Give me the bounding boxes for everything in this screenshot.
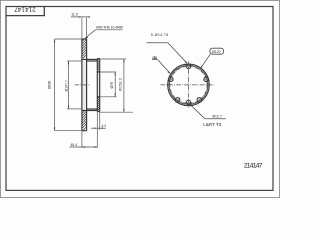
axis centerline left view: [75, 84, 91, 86]
4.2 arrows: [94, 128, 97, 129]
ring top edge: [82, 38, 87, 40]
flange hatch upper: [97, 59, 99, 72]
11.9 arrows: [79, 16, 82, 17]
hat bottom wall outer: [82, 110, 97, 112]
svg-text:Ø79: Ø79: [110, 82, 114, 89]
friction ring right edge: [86, 39, 88, 131]
svg-text:Ø120: Ø120: [212, 50, 221, 54]
ring hatch lower: [82, 111, 87, 130]
svg-text:L&RT Ŧ3: L&RT Ŧ3: [203, 122, 221, 127]
min thk underline: [95, 29, 122, 31]
dim 45.4 extension left: [81, 131, 83, 148]
dim 11.9 extension lines: [81, 18, 83, 39]
flange bottom: [97, 111, 99, 113]
296 arrows: [54, 39, 55, 42]
hat top wall outer: [82, 58, 97, 60]
dim 79 line: [114, 72, 116, 97]
hat top wall inner: [87, 60, 98, 62]
ring bottom edge: [82, 130, 87, 132]
svg-text:MIN THK 10.4MM: MIN THK 10.4MM: [96, 26, 123, 30]
dim 4.2 line: [91, 127, 106, 129]
45.4 arrows: [82, 146, 85, 147]
dim 157 extension top: [67, 60, 82, 62]
min thk arrow: [85, 37, 89, 39]
title block box: [6, 7, 44, 16]
bolt hole upper-left: [169, 77, 174, 82]
svg-text:5-Ø14.75: 5-Ø14.75: [151, 33, 168, 37]
dim 45.4 line: [69, 146, 97, 148]
scan edge frame: [0, 0, 279, 197]
flange top: [97, 58, 99, 60]
bolt pitch circle (dash-dot): [170, 66, 207, 103]
hub chamfer circle: [169, 65, 208, 104]
bolt hole top: [186, 64, 191, 69]
79 arrows: [115, 72, 116, 75]
bolt hole tick marks: [168, 63, 210, 103]
dim 11.9 line: [71, 16, 89, 18]
friction ring left edge: [81, 39, 83, 131]
svg-text:Ø158.3: Ø158.3: [118, 78, 122, 91]
ring mid scan tint: [82, 60, 86, 110]
flange left: [96, 59, 98, 112]
dim 157 extension bottom: [67, 108, 82, 110]
svg-text:214147: 214147: [14, 6, 36, 13]
dim 296 extension top: [55, 38, 82, 40]
dim 157 line: [68, 61, 70, 109]
hat bottom wall inner: [87, 108, 98, 110]
flange right: [99, 59, 101, 112]
157 arrows: [68, 61, 69, 64]
label dia12.7 with leader: [190, 104, 205, 118]
svg-text:4.2: 4.2: [102, 124, 107, 128]
svg-text:Ø12.7: Ø12.7: [212, 115, 222, 119]
bore lower edge: [97, 96, 99, 98]
dim 158.3 extension top: [100, 58, 126, 60]
svg-text:Ø296: Ø296: [48, 81, 52, 89]
svg-text:45.4: 45.4: [70, 143, 77, 147]
dim 79 extension bottom: [100, 96, 117, 98]
flange hatch lower: [97, 97, 99, 111]
bolt hole lower-right: [197, 98, 202, 103]
svg-text:Ø147.7: Ø147.7: [64, 80, 68, 92]
dim 296 line: [54, 39, 56, 131]
flange mid scan tint: [98, 73, 100, 97]
centerline horizontal: [161, 84, 215, 86]
hub outer circle: [168, 64, 210, 106]
svg-text:214147: 214147: [244, 163, 263, 170]
bolt hole lower-left: [175, 98, 180, 103]
158.3 arrows: [123, 59, 124, 62]
dim 45.4 extension right: [96, 112, 98, 148]
dim 158.3 line: [123, 59, 125, 112]
arrowheads left view: [54, 16, 125, 148]
dim 296 extension bottom: [55, 130, 82, 132]
min thk leader: [85, 30, 96, 39]
svg-text:11.9: 11.9: [71, 13, 77, 17]
dim 79 extension top: [100, 71, 117, 73]
drawing border: [6, 7, 273, 191]
label dia120 boxed: [210, 48, 224, 54]
locating hole bottom: [186, 100, 190, 104]
bore upper edge: [97, 71, 99, 73]
dim 158.3 extension bottom: [100, 111, 133, 113]
centerline vertical: [188, 62, 190, 108]
ring hatch upper: [82, 39, 87, 58]
bolt hole upper-right: [204, 77, 209, 82]
